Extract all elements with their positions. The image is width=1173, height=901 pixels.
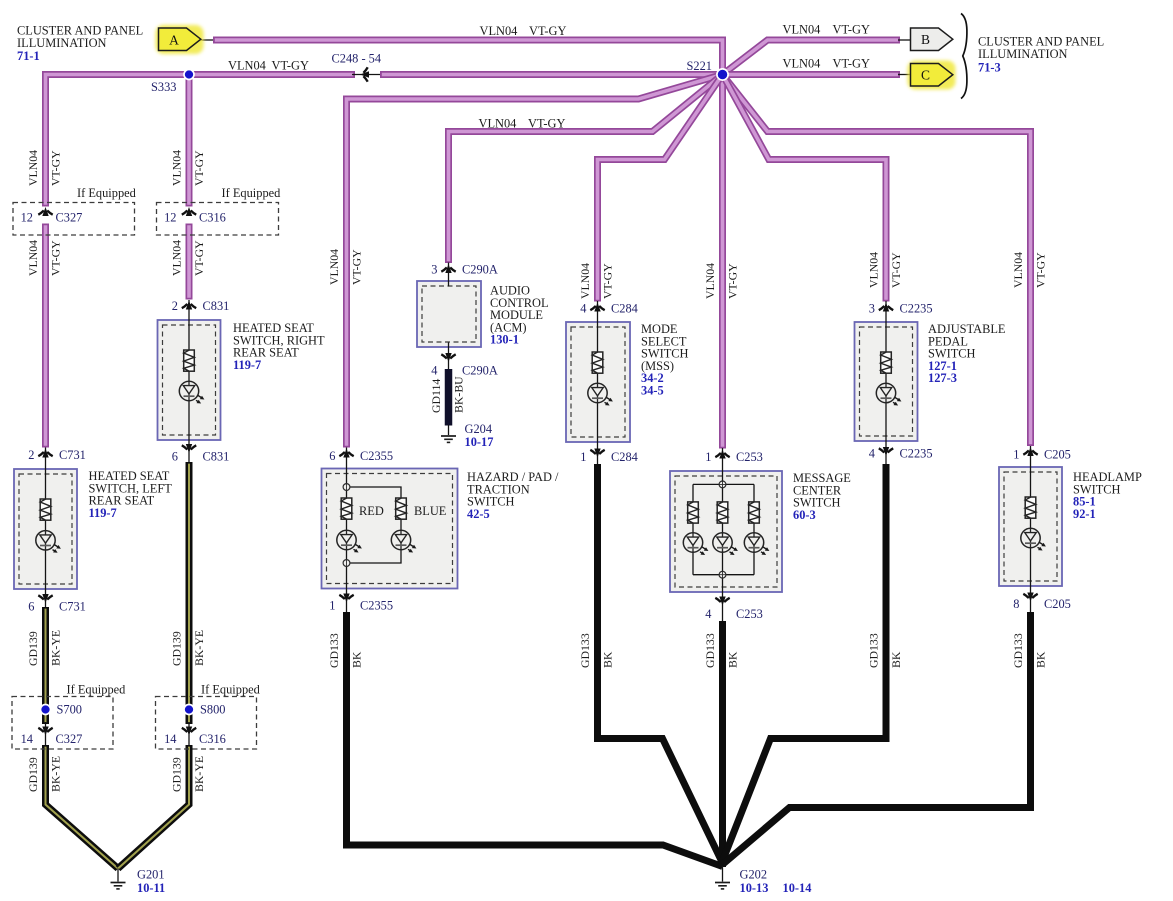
svg-text:C284: C284 (611, 450, 638, 464)
svg-text:VT-GY: VT-GY (350, 249, 364, 285)
svg-text:C327: C327 (56, 732, 83, 746)
svg-text:BK: BK (601, 651, 615, 668)
component box: heated seat switch, right rear seat (158, 320, 221, 440)
connector B (cluster and panel illumination 71-3) (911, 28, 953, 51)
svg-text:GD133: GD133 (703, 633, 717, 668)
svg-text:10-17: 10-17 (465, 435, 494, 449)
svg-text:BK: BK (889, 651, 903, 668)
pin 8 arrow of C205 (1023, 593, 1037, 602)
svg-text:C316: C316 (199, 211, 226, 225)
svg-text:VT-GY: VT-GY (49, 240, 63, 276)
svg-text:VLN04: VLN04 (327, 249, 341, 285)
wire VLN04 VT-GY: S221 to adjustable pedal switch C2235 pin 3 (723, 75, 887, 302)
svg-text:A: A (169, 32, 179, 47)
svg-text:1: 1 (705, 450, 711, 464)
if-equipped dashed box with inline connector C316 pin 12 (157, 203, 279, 236)
if-equipped dashed box with inline connector C327 pin 12 (13, 203, 135, 236)
LED lamp: message center switch middle (713, 533, 738, 555)
svg-text:2: 2 (172, 299, 178, 313)
ground lead G202 (722, 866, 724, 882)
svg-text:S700: S700 (57, 703, 82, 717)
svg-text:10-14: 10-14 (783, 881, 812, 895)
svg-text:1: 1 (580, 450, 586, 464)
pin 14 arrow of C327 (38, 727, 52, 736)
svg-text:C2235: C2235 (900, 447, 933, 461)
yellow highlight behind connector A (156, 25, 204, 54)
svg-text:VLN04: VLN04 (480, 24, 518, 38)
if-equipped dashed box with splice S700 and C327 pin 14 (12, 697, 113, 750)
wire GD133 BK: mode select switch C284 pin 1 to ground G202 (598, 464, 723, 863)
svg-text:C731: C731 (59, 448, 86, 462)
svg-text:VLN04: VLN04 (479, 117, 517, 131)
resistor: heated seat switch left illumination (40, 499, 51, 520)
wire VLN04 VT-GY: S333 rail left segment and down left column to C327 if-equipped box (46, 75, 356, 207)
svg-text:VLN04: VLN04 (783, 57, 821, 71)
connector A (cluster and panel illumination 71-1) (159, 28, 201, 51)
pin 1 arrow of C284 (590, 449, 604, 458)
pin 2 arrow of C831 (182, 301, 196, 310)
internal bus: message center switch top and bottom rails (693, 484, 754, 574)
svg-text:VT-GY: VT-GY (1034, 252, 1048, 288)
resistor: heated seat switch right illumination (184, 350, 195, 371)
svg-text:1: 1 (1013, 448, 1019, 462)
svg-text:6: 6 (329, 449, 335, 463)
LED lamp: adjustable pedal switch (876, 383, 901, 405)
svg-text:VT-GY: VT-GY (192, 150, 206, 186)
lead to connector B (898, 39, 911, 41)
svg-text:127-3: 127-3 (928, 371, 957, 385)
pin 14 arrow of C316 (182, 727, 196, 736)
svg-text:BK-YE: BK-YE (49, 756, 63, 792)
component box: audio control module (ACM) (417, 281, 481, 347)
svg-text:BK-YE: BK-YE (192, 756, 206, 792)
svg-text:GD139: GD139 (26, 631, 40, 666)
svg-text:VLN04: VLN04 (228, 59, 266, 73)
internal wire: mode select switch (597, 301, 599, 464)
svg-text:VLN04: VLN04 (26, 150, 40, 186)
svg-text:10-11: 10-11 (137, 881, 165, 895)
resistor: hazard switch BLUE branch (396, 498, 407, 519)
resistor: adjustable pedal switch illumination (881, 352, 892, 373)
svg-text:S221: S221 (687, 59, 712, 73)
if-equipped dashed box with splice S800 and C316 pin 14 (156, 697, 257, 750)
resistor: message center switch middle (717, 502, 728, 523)
svg-text:60-3: 60-3 (793, 508, 816, 522)
svg-text:12: 12 (164, 211, 176, 225)
connector C (cluster and panel illumination 71-3) (911, 64, 953, 87)
wire VLN04 VT-GY: S221 to mode select switch C284 pin 4 (598, 75, 723, 302)
internal wire: message center switch left branch (692, 484, 694, 574)
pin 3 arrow of C290A (441, 264, 455, 273)
svg-text:VLN04: VLN04 (866, 252, 880, 288)
svg-text:VT-GY: VT-GY (726, 263, 740, 299)
svg-text:BK: BK (350, 651, 364, 668)
svg-text:130-1: 130-1 (490, 333, 519, 347)
svg-text:VT-GY: VT-GY (529, 24, 566, 38)
svg-text:VT-GY: VT-GY (272, 59, 309, 73)
svg-text:S800: S800 (200, 703, 225, 717)
svg-text:BLUE: BLUE (414, 504, 446, 518)
ground lead G201 (117, 869, 119, 882)
svg-text:GD133: GD133 (866, 633, 880, 668)
svg-text:VLN04: VLN04 (783, 22, 821, 36)
yellow highlight behind connector C (908, 61, 956, 90)
pin 6 arrow of C831 (182, 444, 196, 453)
component box: adjustable pedal switch (855, 322, 918, 441)
internal wire: adjustable pedal switch (885, 301, 887, 464)
svg-text:GD133: GD133 (578, 633, 592, 668)
LED lamp: heated seat switch left (36, 531, 61, 553)
svg-text:C253: C253 (736, 450, 763, 464)
svg-text:C205: C205 (1044, 448, 1071, 462)
svg-text:C327: C327 (56, 211, 83, 225)
wire GD139 BK-YE: C731 pin 6 down to S700 splice box (42, 607, 49, 724)
svg-text:6: 6 (172, 450, 178, 464)
svg-text:BK-YE: BK-YE (49, 630, 63, 666)
svg-text:4: 4 (869, 447, 875, 461)
svg-text:RED: RED (359, 504, 384, 518)
svg-text:GD114: GD114 (429, 379, 443, 413)
wire VLN04 VT-GY: rail from C248-54 inline connector to splice S221 (380, 71, 723, 78)
splice S221 (717, 69, 728, 80)
svg-text:4: 4 (580, 302, 586, 316)
pin 1 arrow of C2355 (339, 594, 353, 603)
svg-text:C284: C284 (611, 302, 638, 316)
wire VLN04 VT-GY: S221 to hazard/pad/traction switch C2355 pin 6 (347, 75, 723, 448)
wire GD139 BK-YE: C831 pin 6 down to S800 splice box (186, 462, 193, 724)
svg-text:VLN04: VLN04 (703, 263, 717, 299)
LED lamp: headlamp switch (1021, 528, 1046, 550)
ground G201 (111, 883, 126, 889)
svg-text:92-1: 92-1 (1073, 507, 1096, 521)
svg-text:VT-GY: VT-GY (49, 150, 63, 186)
svg-text:G202: G202 (740, 868, 768, 882)
wire VLN04 VT-GY: left column from C327 box down to C731 pin 2 (42, 224, 49, 448)
svg-text:4: 4 (431, 364, 437, 378)
svg-text:VT-GY: VT-GY (833, 57, 870, 71)
svg-text:VLN04: VLN04 (169, 240, 183, 276)
component box: hazard / pad / traction switch (322, 469, 458, 589)
svg-text:BK-YE: BK-YE (192, 630, 206, 666)
wire GD114 BK-BU: ACM C290A pin 4 to ground G204 (445, 369, 453, 426)
wire VLN04 VT-GY: connector A rail to S221 and down to C253 pin 1 (message center switch column) (213, 40, 723, 449)
svg-text:B: B (921, 32, 930, 47)
resistor: message center switch right (749, 502, 760, 523)
svg-text:GD139: GD139 (169, 757, 183, 792)
component box: headlamp switch (999, 467, 1062, 586)
svg-text:BK: BK (1034, 651, 1048, 668)
internal wire: message center switch middle branch (722, 448, 724, 621)
wire GD133 BK: headlamp switch C205 pin 8 to ground G202 (723, 612, 1031, 865)
svg-text:1: 1 (329, 599, 335, 613)
svg-text:C253: C253 (736, 607, 763, 621)
ground lead G204 (448, 425, 450, 435)
svg-text:If Equipped: If Equipped (222, 186, 282, 200)
pin 2 arrow of C731 (38, 449, 52, 458)
wire VLN04 VT-GY: S221 to audio control module C290A pin 3 (449, 75, 723, 264)
junction node: hazard switch top (343, 484, 350, 491)
svg-text:If Equipped: If Equipped (67, 683, 127, 697)
pin 6 arrow of C2355 (339, 449, 353, 458)
svg-text:C831: C831 (203, 450, 230, 464)
svg-text:119-7: 119-7 (89, 506, 117, 520)
svg-text:VLN04: VLN04 (169, 150, 183, 186)
svg-text:C248 - 54: C248 - 54 (332, 52, 382, 66)
wire GD133 BK: adjustable pedal switch C2235 pin 4 to ground G202 (723, 464, 887, 861)
svg-text:C2235: C2235 (900, 302, 933, 316)
svg-text:2: 2 (28, 448, 34, 462)
svg-text:12: 12 (21, 211, 33, 225)
svg-text:C731: C731 (59, 600, 86, 614)
svg-text:VT-GY: VT-GY (601, 263, 615, 299)
svg-text:14: 14 (21, 732, 33, 746)
link wires through S700/S800 pin arrows (46, 722, 190, 745)
splice S700 (41, 705, 51, 715)
component box: message center switch (670, 471, 782, 592)
lead from connector A (201, 39, 214, 41)
svg-text:C290A: C290A (462, 263, 498, 277)
wire VLN04 VT-GY: S221 up-right to connector B (723, 40, 901, 75)
svg-text:8: 8 (1013, 597, 1019, 611)
junction node: hazard switch bottom (343, 560, 350, 567)
internal wire: hazard switch left (RED) branch (346, 448, 348, 613)
LED lamp: mode select switch (588, 383, 613, 405)
svg-text:BK: BK (726, 651, 740, 668)
svg-text:G204: G204 (465, 422, 493, 436)
svg-text:GD139: GD139 (26, 757, 40, 792)
wire GD133 BK: hazard switch C2355 pin 1 to ground G202 (347, 612, 723, 867)
svg-text:10-13: 10-13 (740, 881, 769, 895)
junction node: message center switch bottom (719, 571, 726, 578)
svg-text:3: 3 (869, 302, 875, 316)
svg-text:71-1: 71-1 (17, 49, 40, 63)
splice S333 (184, 70, 194, 80)
pin 4 arrow of C253 (715, 597, 729, 606)
wire VLN04 VT-GY: from splice S333 down to C316 if-equipped box (186, 75, 193, 207)
splice S800 (184, 705, 194, 715)
svg-text:VT-GY: VT-GY (889, 252, 903, 288)
svg-text:ILLUMINATION: ILLUMINATION (17, 36, 107, 50)
svg-text:C205: C205 (1044, 597, 1071, 611)
resistor: hazard switch RED branch (341, 498, 352, 519)
svg-text:VT-GY: VT-GY (192, 240, 206, 276)
LED lamp: hazard switch BLUE branch (391, 530, 416, 552)
svg-text:6: 6 (28, 600, 34, 614)
LED lamp: hazard switch RED branch (337, 530, 362, 552)
internal wire: headlamp switch (1030, 446, 1032, 612)
brace grouping connectors B and C (961, 14, 967, 99)
svg-text:C2355: C2355 (360, 449, 393, 463)
svg-text:If Equipped: If Equipped (77, 186, 137, 200)
svg-text:If Equipped: If Equipped (201, 683, 261, 697)
svg-text:S333: S333 (151, 80, 176, 94)
svg-text:VLN04: VLN04 (578, 263, 592, 299)
pin 6 arrow of C731 (38, 594, 52, 603)
internal wire: hazard switch right (BLUE) branch (350, 487, 401, 563)
wire VLN04 VT-GY: S221 to headlamp switch C205 pin 1 (723, 75, 1031, 447)
svg-text:GD133: GD133 (1011, 633, 1025, 668)
LED lamp: heated seat switch right (179, 381, 204, 403)
svg-text:4: 4 (705, 607, 711, 621)
svg-text:VLN04: VLN04 (26, 240, 40, 276)
svg-text:C2355: C2355 (360, 599, 393, 613)
inline connector C248-54 lead (352, 74, 380, 76)
pin 1 arrow of C253 (715, 450, 729, 459)
component box: heated seat switch, left rear seat (14, 469, 77, 589)
ground G204 (441, 436, 456, 442)
svg-text:14: 14 (164, 732, 176, 746)
LED lamp: message center switch right (744, 533, 769, 555)
LED lamp: message center switch left (683, 533, 708, 555)
internal wire: heated seat switch left (45, 448, 47, 608)
svg-text:VT-GY: VT-GY (833, 22, 870, 36)
svg-text:BK-BU: BK-BU (452, 376, 466, 413)
junction node: message center switch top (719, 481, 726, 488)
wire VLN04 VT-GY: from C316 box down to C831 pin 2 (186, 224, 193, 300)
svg-text:C831: C831 (203, 299, 230, 313)
svg-text:GD139: GD139 (169, 631, 183, 666)
svg-text:ILLUMINATION: ILLUMINATION (978, 47, 1068, 61)
svg-text:C290A: C290A (462, 364, 498, 378)
wire GD139 BK-YE: C327 pin 14 down and to ground G201 (46, 745, 119, 869)
svg-text:VLN04: VLN04 (1011, 252, 1025, 288)
pin 4 arrow of C284 (590, 303, 604, 312)
svg-text:G201: G201 (137, 868, 165, 882)
inline connector C248-54 arrow (360, 67, 369, 81)
pin 4 arrow of C290A (441, 353, 455, 362)
resistor: message center switch left (688, 502, 699, 523)
svg-text:42-5: 42-5 (467, 507, 490, 521)
ground G202 (715, 883, 730, 889)
svg-text:GD133: GD133 (327, 633, 341, 668)
pin 1 arrow of C205 (1023, 447, 1037, 456)
pin 3 arrow of C2235 (879, 303, 893, 312)
internal wire stubs: audio control module (448, 263, 450, 370)
component box: mode select switch (MSS) (566, 322, 630, 442)
wire VLN04 VT-GY: S221 right to connector C (723, 71, 901, 78)
svg-text:71-3: 71-3 (978, 61, 1001, 75)
pin 4 arrow of C2235 (879, 447, 893, 456)
svg-text:119-7: 119-7 (233, 358, 261, 372)
lead to connector C (898, 74, 911, 76)
pin 12 arrow of C327 (38, 207, 52, 216)
internal wire: heated seat switch right (188, 300, 190, 462)
svg-text:34-5: 34-5 (641, 384, 664, 398)
resistor: mode select switch illumination (592, 352, 603, 373)
resistor: headlamp switch illumination (1025, 497, 1036, 518)
svg-text:3: 3 (431, 263, 437, 277)
internal wire: message center switch right branch (753, 484, 755, 574)
svg-text:C316: C316 (199, 732, 226, 746)
wire GD133 BK: message center switch C253 pin 4 to ground G202 (719, 621, 726, 867)
pin 12 arrow of C316 (182, 207, 196, 216)
wire GD139 BK-YE: C316 pin 14 down and to ground G201 (118, 745, 189, 869)
svg-text:C: C (921, 68, 930, 83)
svg-text:VT-GY: VT-GY (528, 117, 565, 131)
